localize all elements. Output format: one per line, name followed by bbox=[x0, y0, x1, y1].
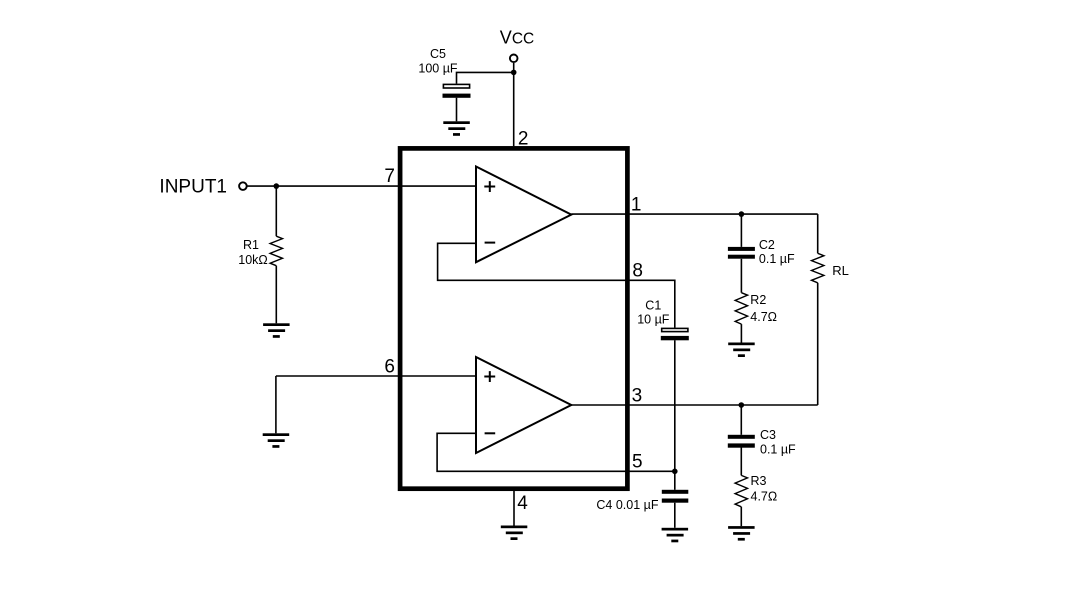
svg-text:C4 0.01 µF: C4 0.01 µF bbox=[596, 498, 658, 512]
svg-text:7: 7 bbox=[384, 166, 395, 187]
svg-text:VCC: VCC bbox=[500, 28, 534, 48]
svg-text:10kΩ: 10kΩ bbox=[238, 253, 268, 267]
svg-text:0.1 µF: 0.1 µF bbox=[759, 252, 795, 266]
svg-text:R3: R3 bbox=[751, 474, 767, 488]
svg-text:4: 4 bbox=[517, 493, 528, 514]
svg-text:4.7Ω: 4.7Ω bbox=[751, 490, 778, 504]
svg-text:0.1 µF: 0.1 µF bbox=[760, 442, 796, 456]
svg-text:3: 3 bbox=[632, 385, 643, 406]
svg-text:6: 6 bbox=[384, 356, 395, 377]
svg-text:4.7Ω: 4.7Ω bbox=[750, 310, 777, 324]
svg-text:C1: C1 bbox=[645, 298, 661, 312]
svg-text:RL: RL bbox=[832, 263, 849, 278]
svg-text:5: 5 bbox=[632, 452, 643, 473]
svg-text:8: 8 bbox=[632, 261, 643, 282]
svg-text:2: 2 bbox=[518, 128, 529, 149]
svg-text:R2: R2 bbox=[750, 293, 766, 307]
svg-text:10 µF: 10 µF bbox=[637, 313, 670, 327]
svg-text:C3: C3 bbox=[760, 428, 776, 442]
svg-text:INPUT1: INPUT1 bbox=[159, 176, 227, 197]
svg-text:R1: R1 bbox=[243, 238, 259, 252]
svg-text:C2: C2 bbox=[759, 238, 775, 252]
svg-text:1: 1 bbox=[631, 195, 642, 216]
svg-text:100 µF: 100 µF bbox=[418, 62, 458, 76]
svg-text:C5: C5 bbox=[430, 47, 446, 61]
